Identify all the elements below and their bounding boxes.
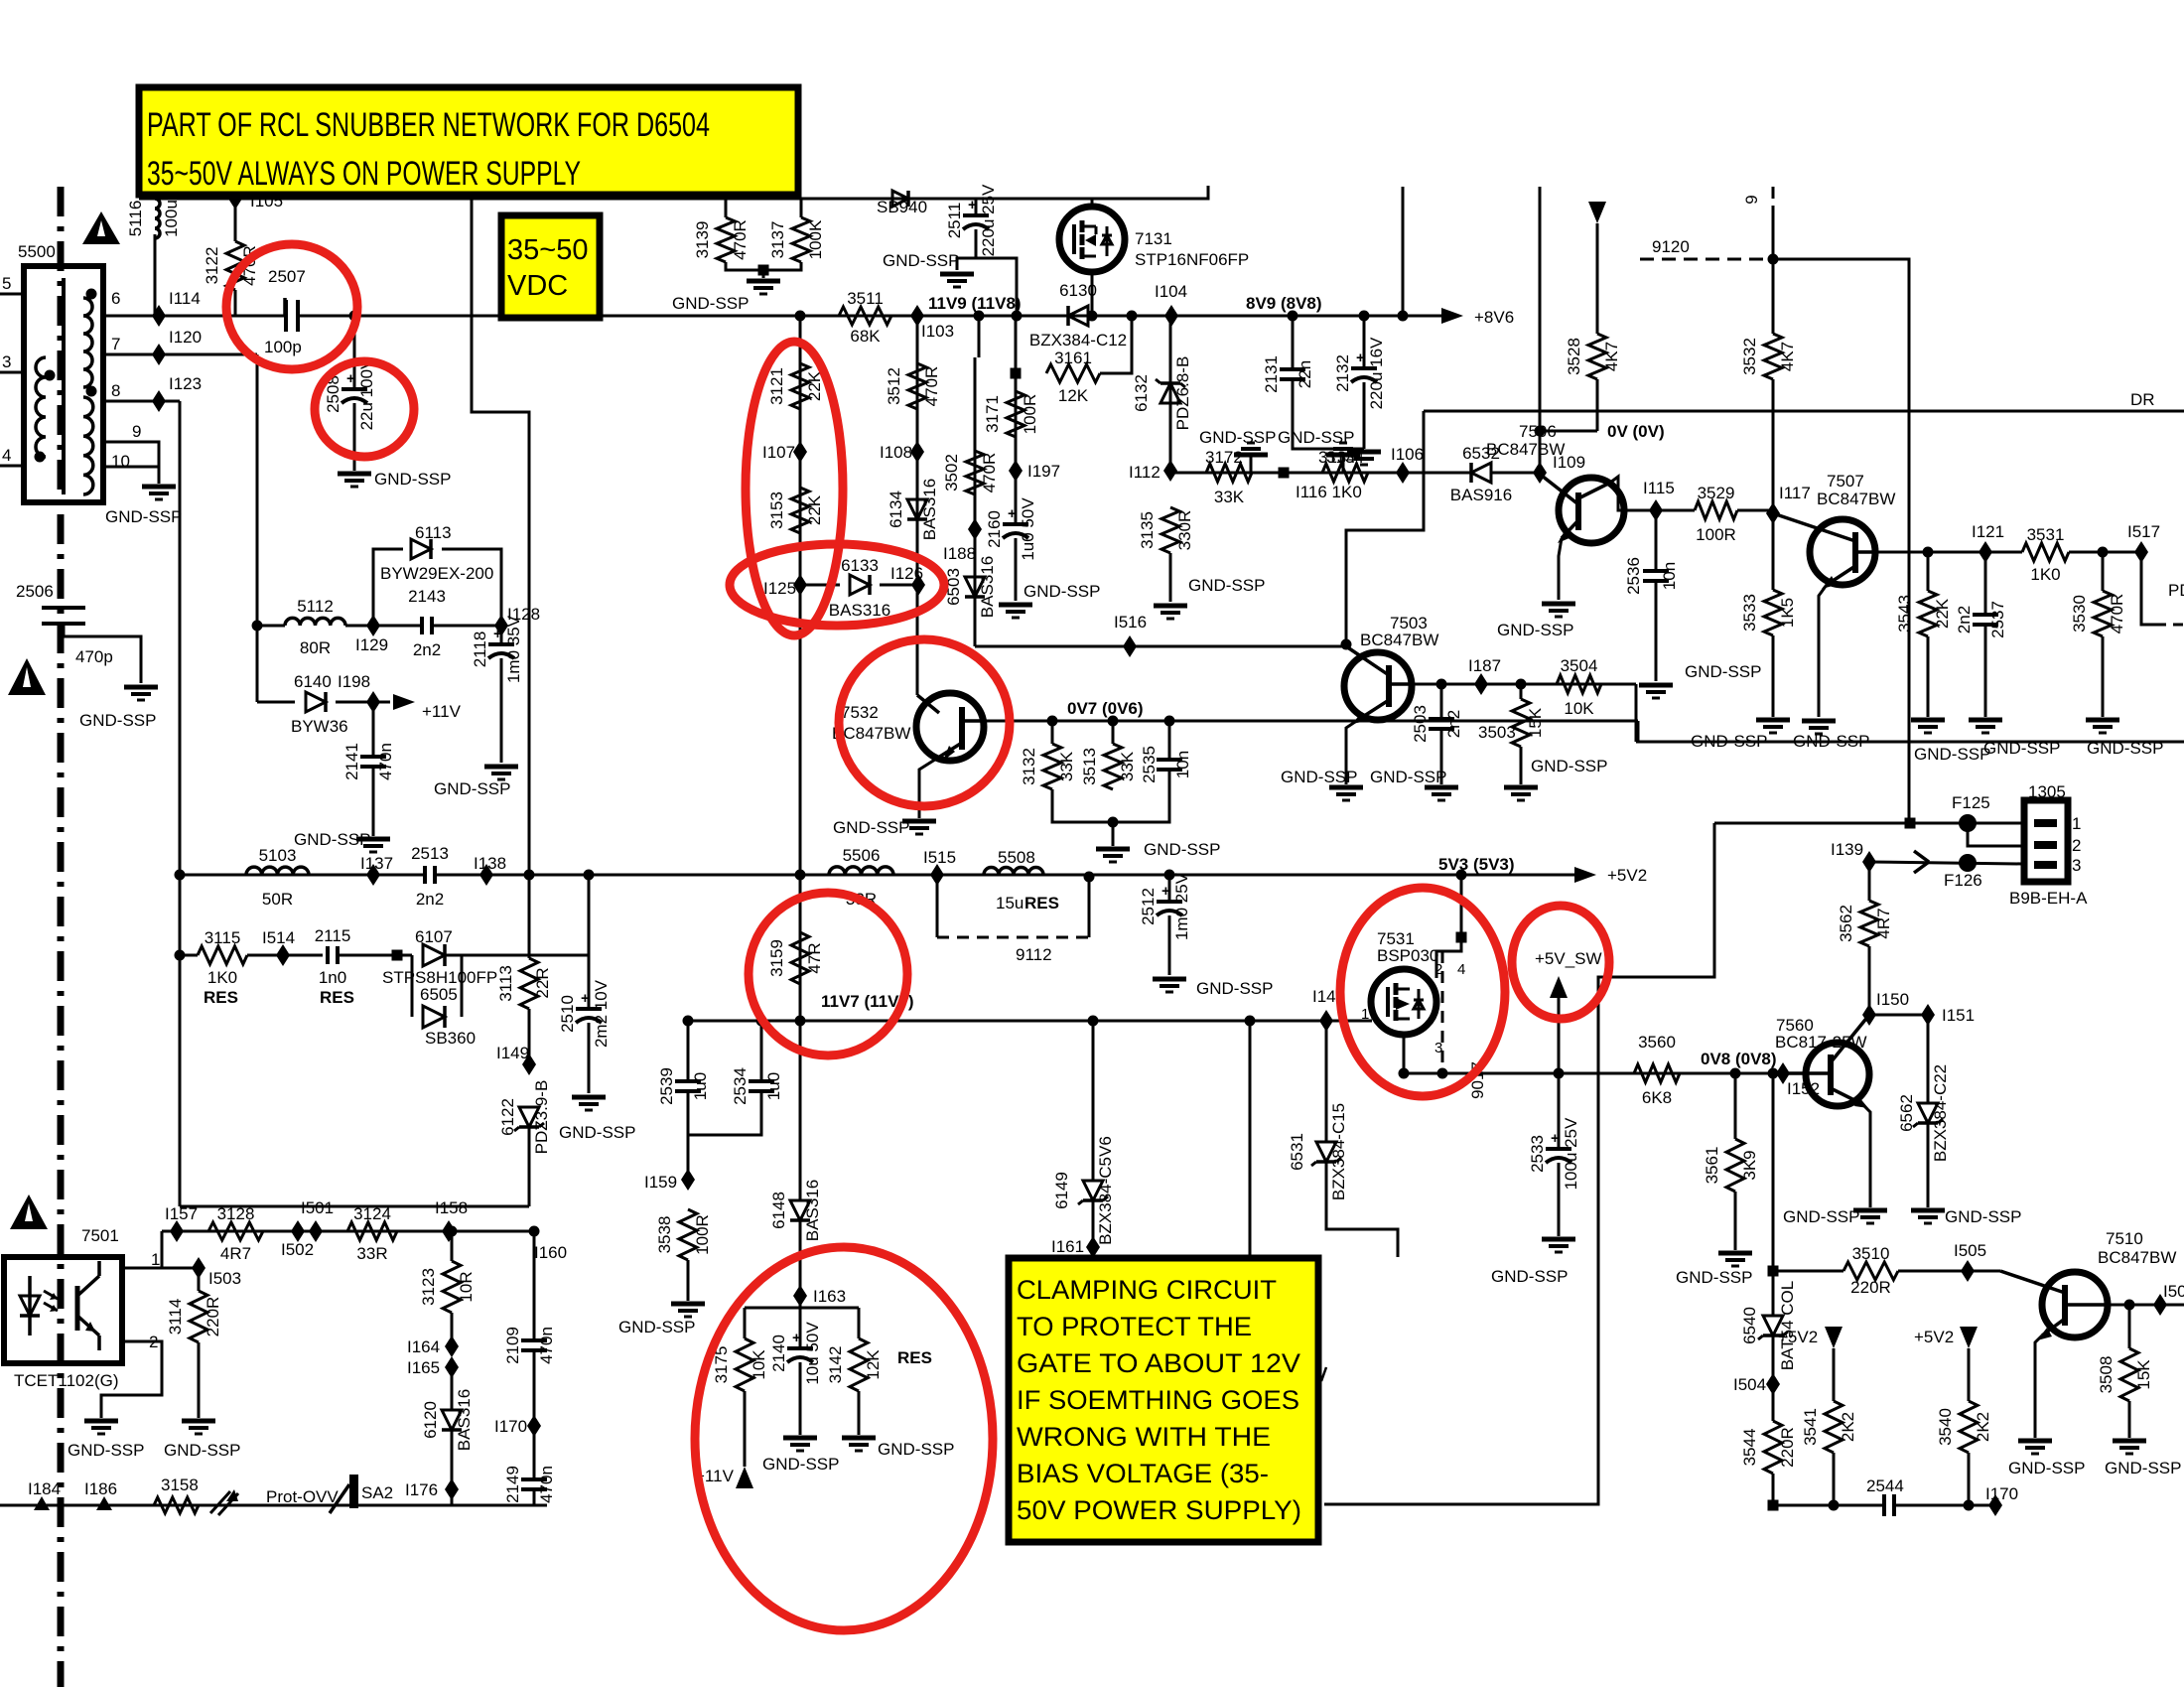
junction xyxy=(1359,311,1370,322)
svg-text:BZX384-C5V6: BZX384-C5V6 xyxy=(1096,1136,1115,1245)
wire 5VSW stub xyxy=(1558,996,1561,1073)
wire 6133 wire xyxy=(800,584,840,587)
wire I150 to I151 xyxy=(1869,1014,1928,1017)
wire 3132 stub xyxy=(1051,721,1054,744)
svg-text:2K2: 2K2 xyxy=(1839,1412,1857,1442)
svg-text:3560: 3560 xyxy=(1638,1033,1676,1052)
capacitor 2143 xyxy=(424,613,430,638)
svg-text:3544: 3544 xyxy=(1740,1429,1759,1467)
wire 11V7 line xyxy=(688,1020,1372,1023)
arrow xyxy=(736,1467,753,1488)
wire 2131 lower xyxy=(1293,379,1364,449)
svg-text:SB940: SB940 xyxy=(877,198,927,216)
svg-text:1305: 1305 xyxy=(2028,782,2066,801)
wire 6505 loop xyxy=(411,955,414,1017)
svg-text:I176: I176 xyxy=(405,1480,438,1499)
diode 6133 xyxy=(850,575,870,595)
node I107 xyxy=(793,441,807,463)
svg-text:220R: 220R xyxy=(204,1297,222,1337)
svg-text:I112: I112 xyxy=(1129,463,1160,482)
highlight 3159 circle xyxy=(749,893,907,1055)
svg-text:6122: 6122 xyxy=(498,1098,517,1136)
wire 3114 chain xyxy=(198,1268,201,1291)
transformer core bar xyxy=(62,278,66,494)
wire F125 wire xyxy=(1714,822,2022,825)
node I123 xyxy=(152,390,166,412)
wire 2534 stub xyxy=(760,1021,763,1080)
svg-text:470R: 470R xyxy=(731,219,750,260)
capacitor 2536 xyxy=(1643,569,1669,573)
spark gap SA2 xyxy=(349,1475,358,1508)
inductor None xyxy=(36,357,46,457)
svg-text:+11V: +11V xyxy=(422,702,462,721)
note box: CLAMPING CIRCUIT xyxy=(1009,1258,1318,1542)
svg-text:50V POWER SUPPLY): 50V POWER SUPPLY) xyxy=(1017,1495,1301,1525)
ground xyxy=(1853,1208,1887,1213)
wire 6120 to bus xyxy=(451,1489,454,1505)
inductor None xyxy=(984,868,1043,875)
wire 3533 chain xyxy=(1772,513,1775,590)
svg-text:1K5: 1K5 xyxy=(1778,598,1797,628)
svg-text:3502: 3502 xyxy=(942,454,961,492)
wire 3510 right xyxy=(1898,1270,2000,1273)
capacitor 2533 xyxy=(1546,1147,1571,1151)
svg-text:0V (0V): 0V (0V) xyxy=(1607,422,1665,441)
svg-text:GND-SSP: GND-SSP xyxy=(833,818,909,837)
wire x1023 chain xyxy=(1015,316,1018,471)
ground xyxy=(902,819,936,824)
svg-text:BSP030: BSP030 xyxy=(1377,946,1438,965)
resistor 3533 xyxy=(1764,590,1782,635)
capacitor 2118 xyxy=(488,642,514,646)
wire clamp left xyxy=(744,1308,747,1338)
wire 3540 lower xyxy=(1968,1453,1971,1505)
resistor 3562 xyxy=(1860,901,1878,946)
wire x1786 riser xyxy=(1772,1073,1775,1271)
junction xyxy=(1768,1068,1779,1079)
svg-text:GND-SSP: GND-SSP xyxy=(1676,1268,1752,1287)
junction xyxy=(1084,872,1095,883)
resistor 3128 xyxy=(208,1222,263,1240)
capacitor 2508 xyxy=(341,387,367,391)
svg-text:STP16NF06FP: STP16NF06FP xyxy=(1135,250,1249,269)
inductor 5116 xyxy=(155,199,160,238)
svg-text:3153: 3153 xyxy=(767,492,786,529)
svg-text:3533: 3533 xyxy=(1740,594,1759,632)
svg-text:BAS316: BAS316 xyxy=(978,556,997,618)
wire 2533 lower xyxy=(1558,1163,1561,1236)
svg-text:GND-SSP: GND-SSP xyxy=(434,779,510,798)
resistor 3122 xyxy=(226,241,244,290)
svg-text:1K0: 1K0 xyxy=(2030,565,2060,584)
wire 0V7 gnd join xyxy=(1052,770,1169,822)
wire 2536 chain xyxy=(1655,510,1658,570)
svg-text:GND-SSP: GND-SSP xyxy=(672,294,749,313)
node I502 xyxy=(309,1220,323,1242)
svg-text:1K0: 1K0 xyxy=(207,968,237,987)
junction xyxy=(2124,1300,2135,1311)
wire 3543 chain xyxy=(1927,552,1930,591)
svg-text:3135: 3135 xyxy=(1138,511,1157,549)
node I138 xyxy=(479,864,493,886)
svg-text:GND-SSP: GND-SSP xyxy=(1278,428,1354,447)
wire 7510 emitter xyxy=(2035,1336,2042,1438)
junction xyxy=(252,621,263,632)
resistor 3134 xyxy=(1322,464,1368,482)
wire clamp t1 xyxy=(799,1296,802,1308)
svg-text:1m0 25V: 1m0 25V xyxy=(1172,872,1191,940)
wire 3503 chain xyxy=(1520,684,1523,699)
wire 0V rail xyxy=(1540,430,1597,433)
svg-text:9120: 9120 xyxy=(1652,237,1690,256)
resistor 3124 xyxy=(347,1222,397,1240)
ground xyxy=(1911,1208,1945,1213)
svg-text:PD: PD xyxy=(2168,581,2184,600)
wire 7131 source xyxy=(1091,272,1094,316)
svg-text:I139: I139 xyxy=(1831,840,1863,859)
svg-text:2535: 2535 xyxy=(1140,746,1159,783)
svg-text:I104: I104 xyxy=(1155,282,1187,301)
ground xyxy=(182,1419,215,1424)
svg-text:GND-SSP: GND-SSP xyxy=(79,711,156,730)
wire 3508 lower xyxy=(2128,1401,2131,1438)
ground xyxy=(124,685,158,690)
svg-text:GND-SSP: GND-SSP xyxy=(762,1455,839,1474)
svg-text:GND-SSP: GND-SSP xyxy=(1914,745,1990,764)
ground xyxy=(1718,1251,1752,1256)
wire opto pin1 to 3114 xyxy=(162,1267,199,1270)
resistor 3543 xyxy=(1919,591,1937,636)
wire 3538 lower xyxy=(687,1260,690,1301)
wire caps join2 xyxy=(688,1091,761,1135)
junction xyxy=(175,950,186,961)
svg-text:3137: 3137 xyxy=(768,221,787,259)
svg-text:BC847BW: BC847BW xyxy=(1486,440,1565,459)
node I152 xyxy=(1776,1062,1790,1084)
svg-text:SA2: SA2 xyxy=(361,1483,393,1502)
wire clamp top xyxy=(745,1307,859,1310)
wire y747 line xyxy=(1636,741,2184,744)
wire 3113 mid xyxy=(528,1009,531,1064)
wire 5V3 arrow wire xyxy=(1461,874,1576,877)
svg-text:2118: 2118 xyxy=(471,632,489,668)
resistor 3531 xyxy=(2022,543,2069,561)
inductor 5112 xyxy=(285,618,345,626)
junction xyxy=(1399,1068,1410,1079)
svg-text:3513: 3513 xyxy=(1080,748,1099,785)
wire 6107 to 593 xyxy=(462,954,589,957)
node I125 xyxy=(793,574,807,596)
resistor 3528 xyxy=(1588,334,1606,379)
svg-text:I125: I125 xyxy=(763,579,796,598)
junction xyxy=(86,289,97,300)
node I148 xyxy=(1319,1010,1333,1032)
wire x982 chain2 xyxy=(974,357,977,646)
wire 3530 lower xyxy=(2102,636,2105,717)
svg-text:3128: 3128 xyxy=(217,1204,255,1223)
ground xyxy=(1425,785,1458,790)
svg-text:2533: 2533 xyxy=(1528,1135,1547,1173)
wire 2118 lower xyxy=(500,658,503,763)
svg-text:3161: 3161 xyxy=(1054,349,1092,367)
inductor None xyxy=(83,298,92,387)
svg-text:9: 9 xyxy=(132,422,141,441)
wire 2535 stub xyxy=(1168,721,1171,759)
resistor xyxy=(1206,464,1252,482)
node I105 xyxy=(228,188,242,210)
wire 3562 chain xyxy=(1868,862,1871,901)
wire 3161 right xyxy=(1100,316,1132,373)
svg-text:GATE TO ABOUT 12V: GATE TO ABOUT 12V xyxy=(1017,1348,1300,1378)
svg-text:9112: 9112 xyxy=(1016,945,1052,964)
resistor xyxy=(1512,699,1530,747)
resistor 3142 xyxy=(850,1338,868,1391)
svg-text:6148: 6148 xyxy=(769,1192,788,1229)
wire 3562 lower xyxy=(1868,946,1871,1015)
wire 3543 lower xyxy=(1927,636,1930,717)
svg-text:3159: 3159 xyxy=(767,939,786,977)
resistor 3529 xyxy=(1695,501,1737,519)
capacitor 2131 xyxy=(1280,367,1305,371)
svg-text:I170: I170 xyxy=(494,1417,527,1436)
ground xyxy=(1153,977,1186,982)
resistor 3121 xyxy=(791,363,809,409)
svg-text:GND-SSP: GND-SSP xyxy=(1188,576,1265,595)
svg-text:3115: 3115 xyxy=(205,928,241,947)
wire I112 line xyxy=(1170,472,1471,475)
capacitor 2507 xyxy=(283,298,287,316)
svg-text:2539: 2539 xyxy=(657,1067,676,1105)
wire 2536 lower xyxy=(1655,581,1658,681)
ground xyxy=(671,1302,705,1307)
svg-text:5V3 (5V3): 5V3 (5V3) xyxy=(1438,855,1515,874)
svg-text:I120: I120 xyxy=(169,328,202,347)
junction xyxy=(1535,426,1546,437)
wire 3528 wire xyxy=(1596,223,1599,334)
wire 7507 collector line xyxy=(1875,551,2022,554)
node I503 xyxy=(192,1257,205,1279)
resistor 3502 xyxy=(966,451,984,494)
wire 3123 lower xyxy=(451,1313,454,1342)
svg-text:10K: 10K xyxy=(750,1349,768,1380)
wire 2143 wire xyxy=(345,625,422,628)
svg-text:DR: DR xyxy=(2130,390,2155,409)
optocoupler 7501 led xyxy=(28,1276,32,1336)
svg-text:+: + xyxy=(493,626,502,642)
svg-text:3171: 3171 xyxy=(983,395,1002,433)
wire 2512 chain xyxy=(1168,875,1171,901)
wire 3142 lower xyxy=(858,1391,861,1435)
svg-text:BYW36: BYW36 xyxy=(291,717,348,736)
svg-text:SB360: SB360 xyxy=(425,1029,476,1048)
junction xyxy=(45,370,56,381)
ground xyxy=(1802,719,1836,724)
svg-text:I188: I188 xyxy=(943,544,976,563)
wire I516 line xyxy=(975,645,1346,648)
wire I187 row xyxy=(1412,683,1636,686)
ground xyxy=(1542,1237,1575,1242)
svg-text:10n: 10n xyxy=(1173,751,1192,778)
svg-text:I187: I187 xyxy=(1468,656,1501,675)
resistor 3512 xyxy=(908,363,926,409)
wire 2506 lower wire xyxy=(64,624,141,683)
node I114 xyxy=(152,305,166,327)
resistor 3561 xyxy=(1726,1139,1744,1192)
svg-text:GND-SSP: GND-SSP xyxy=(1783,1207,1859,1226)
svg-text:RES: RES xyxy=(320,988,354,1007)
inductor None xyxy=(83,397,93,494)
svg-text:3124: 3124 xyxy=(353,1204,391,1223)
svg-text:3561: 3561 xyxy=(1703,1147,1721,1185)
wire 7506 collector xyxy=(1610,477,1695,510)
junction xyxy=(795,870,806,881)
svg-text:I503: I503 xyxy=(208,1269,241,1288)
svg-text:I129: I129 xyxy=(355,635,388,654)
ground xyxy=(1911,718,1945,723)
svg-text:RES: RES xyxy=(204,988,238,1007)
capacitor 2149 xyxy=(521,1477,547,1481)
node I108 xyxy=(910,441,924,463)
ground xyxy=(1154,604,1187,609)
transistor 7510 internals xyxy=(2062,1285,2068,1326)
svg-text:I159: I159 xyxy=(644,1173,677,1192)
junction xyxy=(1554,1068,1565,1079)
svg-text:22K: 22K xyxy=(805,494,824,525)
wire 2511 to riser xyxy=(976,258,1017,316)
svg-text:6562: 6562 xyxy=(1897,1094,1916,1132)
svg-text:+: + xyxy=(1161,883,1170,900)
diode SB940 xyxy=(892,191,908,207)
node I149 xyxy=(522,1054,536,1075)
junction xyxy=(175,870,186,881)
diode 6134 xyxy=(907,499,927,519)
transistor 7532 internals xyxy=(959,707,965,750)
svg-text:220u 16V: 220u 16V xyxy=(1367,337,1386,409)
node I129 xyxy=(366,615,380,636)
wire 0V7 gnd stub xyxy=(1112,822,1115,846)
ground xyxy=(2086,718,2119,723)
svg-text:220u 25V: 220u 25V xyxy=(979,184,998,256)
svg-text:GND-SSP: GND-SSP xyxy=(1945,1207,2021,1226)
wire pin9 wire xyxy=(103,442,159,467)
svg-text:2m2 10V: 2m2 10V xyxy=(592,979,611,1048)
wire 6113 loop xyxy=(373,549,403,626)
svg-text:6540: 6540 xyxy=(1740,1307,1759,1344)
wire 6140 row wire xyxy=(257,701,295,704)
node I188 xyxy=(968,518,982,540)
wire 3531 right xyxy=(2069,551,2141,554)
svg-text:GND-SSP: GND-SSP xyxy=(883,251,959,270)
capacitor 2513 xyxy=(427,862,433,888)
junction xyxy=(1437,1068,1448,1079)
junction xyxy=(1768,1500,1779,1511)
svg-text:2537: 2537 xyxy=(1988,601,2007,638)
capacitor C xyxy=(1886,1490,1892,1520)
junction xyxy=(524,870,535,881)
wire 6149 chain xyxy=(1092,1021,1095,1181)
svg-text:3122: 3122 xyxy=(203,247,221,285)
wire 2537 chain xyxy=(1984,552,1987,614)
svg-text:4K7: 4K7 xyxy=(1778,342,1797,371)
junction xyxy=(1288,311,1298,322)
svg-text:7501: 7501 xyxy=(81,1226,119,1245)
svg-text:B9B-EH-A: B9B-EH-A xyxy=(2009,889,2088,908)
wire pin5 stub xyxy=(0,293,24,296)
svg-text:6132: 6132 xyxy=(1132,374,1151,412)
svg-text:3529: 3529 xyxy=(1698,484,1735,502)
node I139 xyxy=(1862,851,1876,873)
svg-text:5: 5 xyxy=(2,274,11,293)
junction xyxy=(795,1016,806,1027)
ground xyxy=(1096,847,1130,852)
junction xyxy=(1088,1016,1099,1027)
diode 6113 xyxy=(411,539,431,559)
svg-text:3158: 3158 xyxy=(161,1476,199,1494)
transformer 5500 core box xyxy=(24,266,103,502)
svg-text:GND-SSP: GND-SSP xyxy=(105,507,182,526)
svg-text:100R: 100R xyxy=(1696,525,1736,544)
svg-text:I501: I501 xyxy=(301,1198,334,1217)
inv ground xyxy=(1234,453,1268,458)
capacitor 2507 plates xyxy=(288,301,296,333)
junction xyxy=(1164,870,1175,881)
wire 3561 chain xyxy=(1734,1073,1737,1139)
wire 3530 chain xyxy=(2102,552,2105,591)
wire 2115 right xyxy=(338,954,412,957)
wire opto pin2 wire xyxy=(101,1341,162,1418)
junction xyxy=(974,311,985,322)
wire I117 to base xyxy=(1737,509,1773,512)
ground xyxy=(1969,718,2002,723)
wire 6133 wire2 xyxy=(880,584,918,587)
svg-text:+: + xyxy=(1551,1130,1560,1147)
svg-text:+8V6: +8V6 xyxy=(1474,308,1514,327)
svg-text:2: 2 xyxy=(2072,836,2081,855)
svg-text:10R: 10R xyxy=(457,1271,476,1302)
svg-text:BC817-25W: BC817-25W xyxy=(1775,1033,1867,1052)
svg-text:7532: 7532 xyxy=(841,703,879,722)
svg-text:GND-SSP: GND-SSP xyxy=(1144,840,1220,859)
wire 6120 lower xyxy=(451,1430,454,1485)
node I164 xyxy=(445,1336,459,1357)
diode 6130 xyxy=(1068,306,1088,326)
diode 6132 xyxy=(1160,383,1180,403)
arrow xyxy=(1574,867,1596,883)
wire 3510 left xyxy=(1773,1270,1843,1273)
capacitor 2537 xyxy=(1973,613,1998,617)
slash mark xyxy=(1321,1367,1326,1381)
wire riser x1413 xyxy=(1402,187,1405,316)
wire res bottoms join xyxy=(726,262,801,270)
svg-text:RES: RES xyxy=(1024,894,1059,913)
svg-text:9: 9 xyxy=(1742,195,1761,204)
wire 7131 drain xyxy=(1091,199,1094,207)
junction xyxy=(1829,1500,1840,1511)
junction xyxy=(86,386,97,397)
svg-text:2503: 2503 xyxy=(1411,705,1430,743)
inv ground xyxy=(1326,453,1360,458)
svg-text:3531: 3531 xyxy=(2027,525,2065,544)
svg-text:1u0: 1u0 xyxy=(764,1072,783,1100)
wire 7531 source xyxy=(1436,875,1461,978)
node I112 xyxy=(1163,460,1177,482)
wire 9120 dashed xyxy=(1640,258,1766,261)
wire 5116 lower xyxy=(154,234,157,316)
wire x806 to clamp xyxy=(799,1021,802,1200)
wire pin4 stub xyxy=(0,465,24,468)
resistor 3504 xyxy=(1557,675,1601,693)
svg-text:50R: 50R xyxy=(262,890,293,909)
